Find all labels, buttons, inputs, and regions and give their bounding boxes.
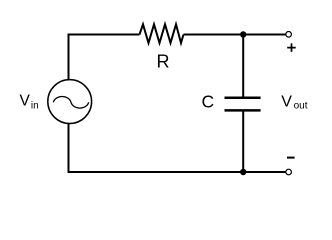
resistor R1 zigzag	[140, 24, 184, 43]
wire resistor to top terminal	[184, 34, 286, 36]
plus sign	[287, 43, 296, 52]
svg-text:out: out	[294, 101, 308, 112]
wire source bottom	[69, 124, 286, 172]
svg-text:V: V	[281, 94, 292, 111]
svg-text:R: R	[157, 52, 170, 72]
node junction dot bottom	[240, 169, 246, 175]
svg-text:C: C	[202, 92, 215, 112]
minus sign	[287, 157, 295, 159]
node junction dot top	[240, 31, 246, 37]
wire capacitor bottom lead	[242, 112, 244, 173]
capacitor C1 plates	[225, 98, 261, 111]
sine wave inside source	[53, 96, 88, 108]
svg-text:V: V	[20, 93, 31, 110]
svg-text:in: in	[31, 101, 39, 112]
terminal bottom open circle	[286, 169, 292, 175]
voltage source V1 circle	[48, 80, 92, 124]
terminal top open circle	[286, 32, 292, 38]
wire capacitor top lead	[242, 35, 244, 97]
wire top-left from source to resistor	[69, 35, 140, 80]
